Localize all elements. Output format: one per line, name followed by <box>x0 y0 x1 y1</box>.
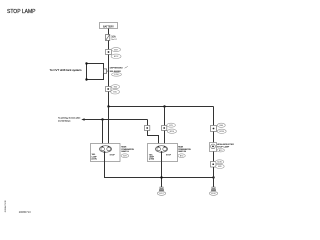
node branch bottom <box>85 78 87 80</box>
svg-text:(21W): (21W) <box>92 159 98 161</box>
svg-text:STOP: STOP <box>166 155 172 157</box>
label HIGH-MOUNTED STOP LAMP <box>217 144 235 152</box>
connector label B240 <box>215 160 223 164</box>
svg-text:B73: B73 <box>123 156 126 158</box>
svg-text:E110: E110 <box>114 74 118 76</box>
wire C3 to lamp <box>213 132 215 143</box>
rear combination lamp LH <box>91 144 121 162</box>
connector C3 <box>211 126 217 132</box>
svg-text:B29: B29 <box>219 150 222 152</box>
wire RH stop drop lower <box>164 131 166 148</box>
switch connector label E110 <box>112 73 122 77</box>
svg-text:B10: B10 <box>113 92 116 94</box>
node branch top <box>85 62 87 64</box>
wire C2 down to junction <box>108 92 110 107</box>
wire RH lamp output <box>161 153 163 188</box>
svg-text:B60: B60 <box>220 125 223 127</box>
svg-text:To CVT shift lock system: To CVT shift lock system <box>50 69 82 72</box>
svg-text:M47: M47 <box>114 49 118 51</box>
connector label B28 <box>215 164 224 168</box>
wire branch loop <box>87 64 104 80</box>
fuse F1 <box>106 35 110 41</box>
switch state label DEPRESSED <box>110 66 128 69</box>
connector label M47 <box>111 48 120 52</box>
svg-text:STOP LAMP: STOP LAMP <box>217 145 230 148</box>
connector C5 <box>145 126 150 131</box>
ground G1 <box>157 187 165 195</box>
wire C1 to C2 through switch <box>108 55 110 87</box>
svg-text:B74: B74 <box>180 156 183 158</box>
svg-text:(21W): (21W) <box>149 159 155 161</box>
wire RH tail drop upper <box>147 120 149 126</box>
label REAR COMBINATION LAMP LH <box>121 146 134 158</box>
svg-text:To parking, license plate: To parking, license plate <box>58 117 81 120</box>
rear combination lamp RH <box>148 144 178 162</box>
svg-text:JKWA0713E: JKWA0713E <box>4 200 7 213</box>
wire tail feed horizontal <box>92 119 148 121</box>
high-mounted stop lamp <box>210 143 217 152</box>
wire RH stop drop upper <box>164 107 166 126</box>
wire high-mounted branch <box>213 107 215 126</box>
wire battery to fuse <box>108 29 110 35</box>
svg-text:and tail lamps: and tail lamps <box>58 119 70 122</box>
svg-text:B210: B210 <box>170 131 174 133</box>
label REAR COMBINATION LAMP RH <box>178 146 191 158</box>
svg-text:20080713: 20080713 <box>19 210 31 214</box>
connector label E152 <box>111 54 121 58</box>
node J1 <box>107 105 109 107</box>
svg-text:LAMP LH: LAMP LH <box>121 150 129 153</box>
fuse value label 10A <box>111 36 117 42</box>
node J4 <box>160 176 162 178</box>
node J2 <box>163 105 165 107</box>
connector label B75 <box>167 123 176 127</box>
svg-text:STOP: STOP <box>110 154 116 156</box>
connector C6 <box>162 126 167 131</box>
wire LH tail drop <box>102 120 104 148</box>
connector label B10 <box>111 90 120 94</box>
wire LH stop drop <box>108 107 110 148</box>
svg-text:B240: B240 <box>217 162 221 164</box>
connector label B60 <box>217 123 225 127</box>
wire stop feed horizontal <box>109 106 214 108</box>
ground G2 <box>209 187 217 195</box>
svg-text:BATTERY: BATTERY <box>103 25 114 28</box>
arrow to parking lamps <box>81 118 92 121</box>
stop lamp switch S1 <box>104 69 109 73</box>
connector label B210 <box>167 129 176 133</box>
svg-text:B230: B230 <box>219 131 223 133</box>
svg-text:B28: B28 <box>218 166 221 168</box>
svg-text:B132: B132 <box>211 193 215 195</box>
node J5 <box>212 176 214 178</box>
svg-text:B117: B117 <box>159 193 163 195</box>
svg-text:LAMP RH: LAMP RH <box>178 150 187 153</box>
wire fuse to connector C1 <box>108 41 110 50</box>
node J3 <box>101 118 103 120</box>
connector C2 <box>106 87 112 92</box>
wire LH lamp output <box>105 153 214 178</box>
connector C4 <box>211 162 217 168</box>
svg-text:No.12: No.12 <box>111 39 117 41</box>
wire RH tail jog <box>148 131 159 148</box>
connector label B230 <box>217 129 226 133</box>
wire lamp to C4 <box>213 152 215 162</box>
svg-text:STOP LAMP: STOP LAMP <box>7 9 36 15</box>
connector C1 <box>106 50 112 55</box>
connector label E30 <box>111 85 119 89</box>
battery B1 <box>100 23 118 29</box>
svg-text:E30: E30 <box>114 87 117 89</box>
wire C4 to ground bus <box>213 167 215 187</box>
parking lamps label <box>58 117 81 123</box>
svg-text:DEPRESSED: DEPRESSED <box>110 67 123 69</box>
svg-text:E152: E152 <box>114 56 118 58</box>
svg-text:B75: B75 <box>169 125 172 127</box>
